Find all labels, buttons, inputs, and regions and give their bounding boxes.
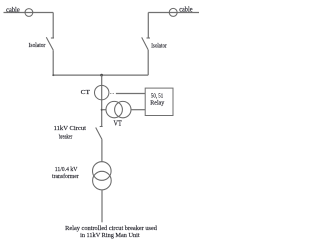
wire center bus down through CT to breaker (101, 75, 103, 126)
wire left drop to isolator (52, 13, 54, 38)
breaker blade (96, 128, 102, 140)
breaker fixed contact tick (100, 126, 103, 128)
cable termination circle right (169, 8, 177, 16)
relay box 50,51 (145, 88, 173, 115)
svg-text:50, 51: 50, 51 (151, 92, 163, 99)
svg-text:transformer: transformer (52, 173, 80, 180)
wire breaker to transformer (101, 139, 103, 162)
svg-text:cable: cable (6, 6, 20, 14)
isolator right fixed contact tick (147, 37, 151, 39)
svg-text:Isolator: Isolator (151, 42, 167, 49)
svg-text:VT: VT (114, 120, 123, 128)
cable termination circle left (25, 9, 33, 17)
svg-text:cable: cable (179, 5, 192, 13)
wire right isolator to bus (147, 50, 149, 75)
wire left isolator to bus (52, 50, 54, 75)
junction corner bus left (52, 74, 54, 76)
isolator left blade (46, 37, 53, 50)
svg-text:Isolator: Isolator (29, 42, 47, 49)
junction dot bus to feeder (100, 74, 103, 77)
wire CT tap dashes (110, 93, 113, 95)
svg-text:in 11kV Ring Man Unit: in 11kV Ring Man Unit (80, 232, 140, 239)
wire transformer LV tail (101, 190, 103, 222)
transformer primary circle (93, 162, 112, 181)
svg-text:11kV Circut: 11kV Circut (54, 125, 87, 132)
wire VT to relay (131, 109, 145, 111)
wire right drop to isolator (147, 13, 149, 38)
wire right cable feeder horizontal (148, 12, 199, 14)
VT primary circle (106, 101, 122, 117)
wire left cable feeder horizontal (4, 12, 54, 14)
wire VT tap stub (102, 109, 106, 111)
bus wire (53, 74, 148, 76)
svg-text:CT: CT (81, 89, 90, 96)
CT circle (95, 85, 109, 99)
wire CT tap to relay (116, 93, 145, 95)
svg-text:Relay controlled circut breake: Relay controlled circut breaker used (65, 225, 158, 232)
junction dot VT tap (101, 109, 103, 111)
svg-text:Relay: Relay (150, 99, 165, 106)
transformer secondary circle (93, 171, 112, 190)
svg-text:breaker: breaker (59, 133, 73, 140)
isolator right blade (142, 37, 149, 50)
isolator left fixed contact tick (51, 37, 54, 39)
VT secondary circle (115, 101, 131, 117)
